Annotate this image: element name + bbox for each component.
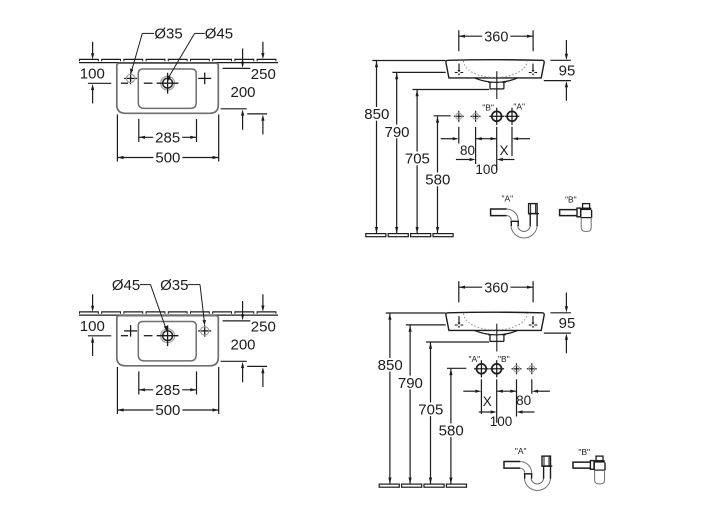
- connection point cross 2: [527, 363, 537, 374]
- svg-text:"A": "A": [513, 102, 525, 112]
- drain centre line: [496, 71, 498, 99]
- dimension 705: [416, 342, 489, 484]
- fixing hole symbol (front): [455, 316, 463, 328]
- bowl front arc: [475, 331, 517, 335]
- dimension 250: [247, 294, 276, 387]
- svg-text:80: 80: [516, 393, 531, 408]
- drain position A (circle): [468, 354, 488, 377]
- svg-text:100: 100: [475, 162, 498, 177]
- dimension 250: [247, 42, 276, 135]
- svg-text:250: 250: [251, 319, 276, 336]
- drain outlet (front): [488, 335, 506, 342]
- svg-text:200: 200: [230, 337, 255, 354]
- dimension 850: [362, 61, 445, 234]
- centre line dashes: [121, 82, 153, 84]
- dimension 285: [139, 371, 197, 399]
- label diameter 35: [130, 26, 183, 75]
- dimension 790: [383, 72, 446, 233]
- svg-text:"B": "B": [565, 194, 577, 204]
- svg-text:80: 80: [460, 143, 475, 158]
- floor line (tiles): [366, 234, 453, 237]
- drain centre line: [496, 324, 498, 352]
- svg-text:850: 850: [364, 106, 389, 123]
- dimension 100 (front, mirrored): [479, 410, 535, 429]
- dimension 360: [459, 29, 533, 51]
- svg-text:Ø45: Ø45: [205, 26, 233, 43]
- dimension 360: [459, 280, 533, 302]
- drain position B (circle): [489, 354, 509, 377]
- svg-text:Ø45: Ø45: [112, 277, 140, 294]
- dimension 790: [396, 325, 446, 484]
- label diameter 45 (mirrored view): [112, 277, 167, 332]
- svg-text:"A": "A": [515, 446, 527, 456]
- svg-text:705: 705: [418, 402, 443, 419]
- dimension 580: [423, 116, 452, 234]
- dimension 500: [117, 114, 218, 166]
- svg-text:95: 95: [559, 315, 576, 332]
- svg-text:100: 100: [490, 414, 513, 429]
- dimension X: [499, 143, 508, 158]
- basin bowl (plan): [138, 322, 196, 361]
- svg-text:285: 285: [155, 382, 180, 399]
- dimension 200: [221, 301, 256, 382]
- extension lines below symbols: [481, 379, 531, 423]
- dimension 95: [544, 293, 576, 354]
- svg-text:360: 360: [484, 29, 508, 45]
- dimension 95: [544, 40, 576, 101]
- svg-text:"B": "B": [482, 102, 494, 112]
- fixing hole symbol (front): [529, 316, 537, 328]
- svg-text:500: 500: [155, 402, 180, 419]
- basin bowl (plan): [138, 69, 196, 108]
- dimension 80 (mirrored): [516, 393, 531, 408]
- trap A label: [501, 193, 513, 203]
- svg-text:"B": "B": [578, 447, 590, 457]
- svg-text:850: 850: [378, 357, 403, 374]
- centre line dashes: [121, 335, 153, 337]
- svg-text:X: X: [499, 143, 508, 158]
- tap hole left (cross): [124, 325, 137, 337]
- svg-text:580: 580: [425, 172, 450, 189]
- connection point cross 2: [471, 111, 481, 122]
- svg-text:285: 285: [155, 130, 180, 147]
- label diameter 45: [168, 26, 234, 82]
- trap A (tube siphon): [491, 204, 539, 238]
- svg-text:Ø35: Ø35: [154, 26, 182, 43]
- bowl front arc: [475, 78, 517, 82]
- svg-text:790: 790: [398, 375, 423, 392]
- washbasin outline (front): [446, 60, 544, 78]
- dimension 80: [441, 137, 530, 158]
- floor line (tiles): [379, 484, 466, 487]
- svg-text:360: 360: [484, 280, 508, 296]
- connection point cross 1: [454, 111, 464, 122]
- dimension 100: [80, 42, 112, 104]
- bowl rim (dotted): [464, 61, 528, 78]
- svg-text:100: 100: [80, 318, 105, 335]
- drain outlet (front): [488, 82, 506, 89]
- trap A label: [515, 446, 527, 456]
- bowl rim (dotted): [464, 313, 528, 330]
- trap A (tube siphon): [504, 456, 552, 490]
- svg-text:X: X: [483, 394, 492, 409]
- dimension 850: [376, 313, 446, 484]
- trap B (bottle siphon): [573, 456, 605, 484]
- drain hole: [157, 73, 179, 94]
- wall line (plan view): [79, 59, 278, 62]
- svg-text:250: 250: [251, 66, 276, 83]
- dimension 705: [403, 90, 489, 234]
- fixing hole symbol (front): [455, 64, 463, 76]
- connection point cross 1: [512, 363, 522, 374]
- tap hole left (cross): [124, 73, 137, 85]
- svg-text:580: 580: [439, 423, 464, 440]
- svg-text:705: 705: [405, 151, 430, 168]
- tap hole right (cross): [198, 325, 211, 337]
- washbasin outline (front): [446, 312, 544, 330]
- dimension X (mirrored): [463, 390, 550, 409]
- svg-text:790: 790: [384, 124, 409, 141]
- trap B label: [565, 194, 577, 204]
- dimension 100: [80, 294, 112, 356]
- svg-text:Ø35: Ø35: [160, 277, 188, 294]
- dimension 100 (front): [456, 158, 515, 177]
- dimension 285: [139, 119, 197, 147]
- dimension 200: [221, 49, 256, 130]
- trap B label: [578, 447, 590, 457]
- svg-text:500: 500: [155, 150, 180, 167]
- label diameter 35 (mirrored view): [160, 277, 206, 326]
- washbasin outline (plan): [117, 316, 219, 366]
- svg-text:100: 100: [80, 66, 105, 83]
- svg-text:"A": "A": [468, 354, 480, 364]
- trap B (bottle siphon): [560, 204, 592, 232]
- drain hole: [157, 325, 179, 346]
- tap hole right (cross): [198, 73, 211, 85]
- svg-text:95: 95: [559, 63, 576, 80]
- dimension 580: [437, 368, 467, 484]
- wall line (plan view): [79, 312, 278, 315]
- extension lines below symbols: [459, 127, 512, 171]
- fixing hole symbol (front): [529, 64, 537, 76]
- svg-text:"B": "B": [498, 354, 510, 364]
- drain position A (circle): [505, 102, 525, 125]
- dimension 500: [117, 367, 218, 419]
- drain position B (circle): [482, 102, 504, 125]
- svg-text:"A": "A": [501, 193, 513, 203]
- washbasin outline (plan): [117, 63, 219, 113]
- svg-text:200: 200: [230, 84, 255, 101]
